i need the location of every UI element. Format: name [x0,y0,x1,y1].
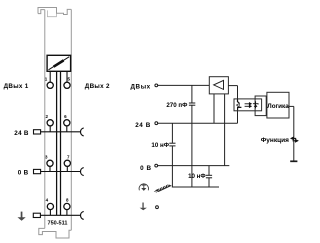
svg-text:Логика: Логика [267,103,289,110]
svg-text:6: 6 [64,114,67,119]
svg-text:7: 7 [67,154,70,159]
svg-text:10 нФ: 10 нФ [151,142,169,149]
svg-text:ДВых 1: ДВых 1 [4,83,29,90]
svg-text:270 пФ: 270 пФ [166,102,188,109]
svg-text:5: 5 [68,76,71,81]
svg-text:24 В: 24 В [135,122,151,129]
svg-text:10 нФ: 10 нФ [188,173,206,180]
svg-text:8: 8 [66,198,69,203]
svg-text:4: 4 [46,198,49,203]
svg-text:750-511: 750-511 [48,221,68,227]
svg-text:ДВых: ДВых [130,84,150,91]
svg-text:Функция: Функция [261,137,289,144]
svg-text:24 В: 24 В [14,130,29,137]
svg-text:2: 2 [46,114,49,119]
svg-text:1: 1 [45,76,48,81]
svg-text:0 В: 0 В [18,169,29,176]
svg-text:3: 3 [45,154,48,159]
svg-text:0 В: 0 В [140,165,152,172]
svg-text:ДВых 2: ДВых 2 [85,83,110,90]
